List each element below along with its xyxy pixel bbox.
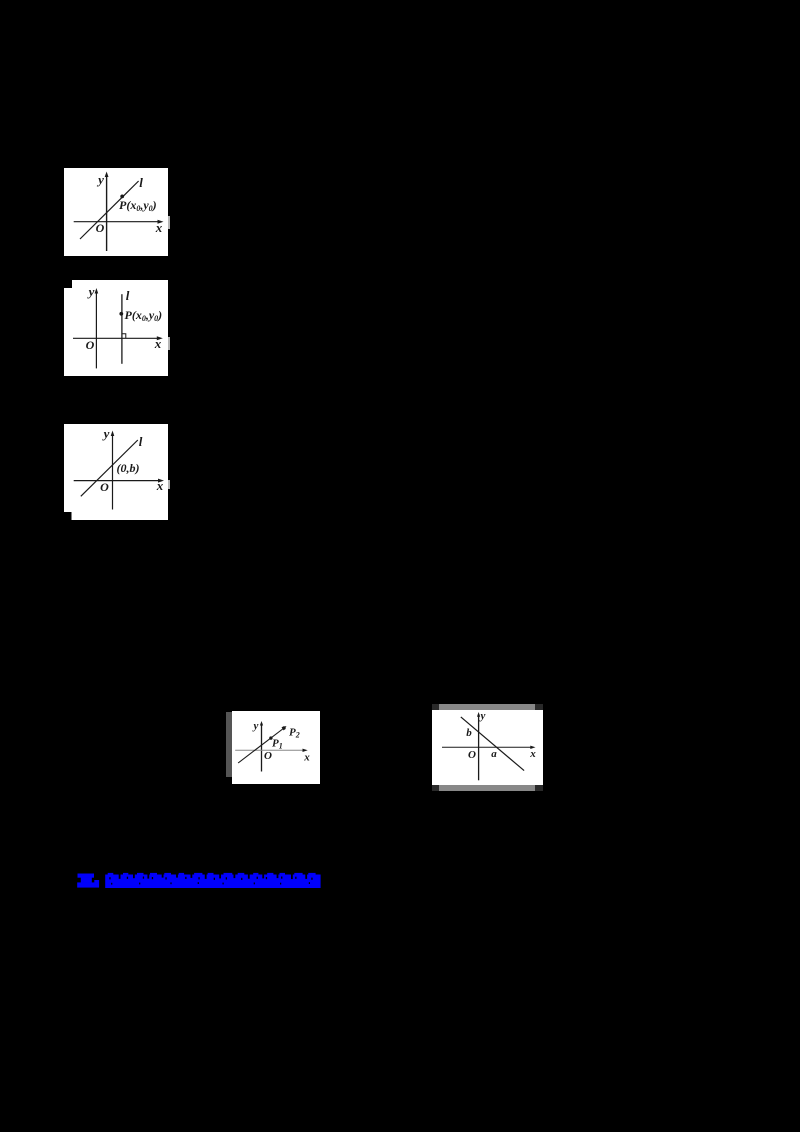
figure 4: line through P1 and P2 (two-point form) <box>232 711 320 784</box>
x-axis <box>74 480 162 482</box>
y-axis <box>112 433 114 510</box>
figure 1: line l through point P(x0,y0) (point-slope form) <box>64 168 168 256</box>
figure 5: line with intercepts a and b (intercept form) <box>432 710 543 785</box>
scan sliver right of figure 3 <box>168 480 170 489</box>
line through P1 P2 with arrow <box>238 728 284 763</box>
y-axis <box>261 723 263 772</box>
scan sliver right of figure 1 <box>168 216 170 229</box>
scan smudge above figure 1 top <box>96 168 112 170</box>
y-axis <box>95 290 97 368</box>
scan sliver right of figure 2 <box>168 337 170 350</box>
vertical line l <box>121 294 123 364</box>
y-axis <box>478 714 480 780</box>
x-axis <box>73 337 160 339</box>
figure 5 bottom gray scan bar <box>432 785 543 791</box>
line l <box>80 181 139 239</box>
point P2 dot <box>282 726 285 729</box>
line with negative slope <box>461 717 524 771</box>
black notch bottom-left <box>64 512 72 520</box>
figure 2: vertical line l through P(x0,y0) <box>64 280 168 376</box>
x-axis <box>74 221 161 223</box>
heading token "五、" <box>77 874 99 888</box>
point P dot <box>120 195 124 199</box>
point P1 dot <box>269 736 272 739</box>
point P dot <box>119 312 123 316</box>
y-axis <box>106 174 108 251</box>
black notch top-left <box>64 280 72 288</box>
line l <box>81 440 138 496</box>
figure 3: line l with y-intercept (0,b) (slope-intercept form) <box>64 424 168 520</box>
x-axis <box>442 746 533 748</box>
underlined blue heading run (CJK glyph blobs) <box>105 873 320 888</box>
scan smudge below figure 1 y-axis <box>103 253 113 255</box>
figure 5 top gray scan bar <box>432 704 543 710</box>
right-angle mark <box>122 334 126 339</box>
x-axis <box>235 749 305 751</box>
figure 4 left gray scan strip <box>226 712 232 777</box>
